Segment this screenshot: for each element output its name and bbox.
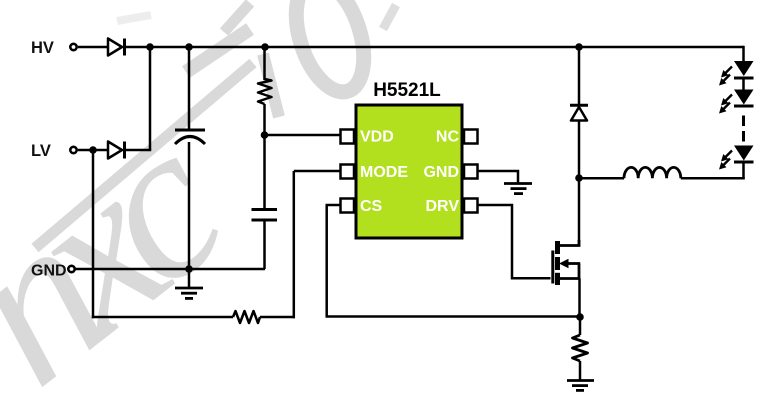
- pin CS box: [341, 199, 355, 213]
- wire LV node down: [92, 150, 95, 318]
- wire source node to R4: [579, 317, 582, 335]
- wire CS bottom run: [326, 315, 581, 318]
- wire MODE riser: [293, 171, 296, 318]
- pin MODE box: [341, 165, 355, 179]
- wire bottom left to R2: [92, 316, 233, 319]
- wire source down: [578, 279, 581, 318]
- svg-text:NC: NC: [436, 129, 460, 146]
- wire LV terminal to D2: [78, 149, 108, 152]
- svg-text:GND: GND: [31, 263, 67, 280]
- pin DRV box: [464, 199, 478, 213]
- node VDD: [261, 131, 269, 139]
- resistor R1 (vertical): [258, 79, 272, 104]
- watermark p stem: [263, 54, 279, 117]
- wire D2 to riser: [126, 149, 151, 152]
- wire SW to L1: [579, 177, 624, 180]
- svg-text:H5521L: H5521L: [373, 80, 441, 101]
- wire drain riser: [578, 178, 581, 246]
- watermark wisp right of o: [383, 5, 396, 29]
- pin GND box: [464, 165, 478, 179]
- svg-text:HV: HV: [31, 39, 54, 57]
- LED LED2: [719, 90, 754, 114]
- node LV / bottom feedback: [89, 146, 97, 154]
- node top rail / R1: [261, 43, 269, 51]
- IC U1 H5521L: [356, 105, 462, 238]
- watermark text nxc-po: [0, 0, 396, 409]
- wire top rail to C1: [188, 47, 191, 130]
- node SW: [575, 174, 583, 182]
- diode D3 (freewheel): [570, 105, 588, 120]
- wire R2 to MODE riser: [260, 316, 295, 319]
- pin VDD box: [341, 130, 355, 144]
- svg-text:CS: CS: [360, 198, 383, 215]
- wire LED rail top: [742, 46, 745, 62]
- LED LED3: [719, 146, 754, 170]
- terminal HV: [70, 44, 76, 50]
- ground G2: [504, 184, 532, 194]
- wire GND pin to ground: [478, 171, 519, 184]
- ground G3: [567, 381, 594, 391]
- wire riser LV to top rail: [149, 46, 152, 150]
- diode D2 (LV input): [108, 142, 125, 159]
- wire VDD node to pin: [265, 134, 341, 137]
- channel tick drain: [555, 241, 560, 254]
- wire R1 to top rail: [263, 47, 266, 80]
- LED LED1: [719, 61, 754, 86]
- diode D1 (HV input): [108, 39, 125, 56]
- svg-text:MODE: MODE: [360, 164, 408, 181]
- watermark o loop: [284, 0, 377, 100]
- wire C1 to GND rail: [188, 142, 191, 269]
- terminal GND: [68, 266, 74, 272]
- source stub: [558, 277, 580, 280]
- wire VDD node to R1: [263, 104, 266, 135]
- wire CS riser: [325, 205, 328, 317]
- node source / CS: [576, 313, 584, 321]
- svg-text:VDD: VDD: [360, 129, 394, 146]
- node top rail / C1: [185, 43, 193, 51]
- terminal LV: [70, 147, 76, 153]
- body to source: [578, 264, 581, 279]
- node top rail / LV diode: [146, 43, 154, 51]
- wire DRV pin to gate: [478, 205, 551, 278]
- inductor L1: [624, 167, 681, 178]
- node GND / C1: [185, 265, 193, 273]
- wire C2 to VDD node: [263, 135, 266, 209]
- wire LED rail bottom: [742, 163, 745, 179]
- wire top rail: [126, 46, 744, 49]
- gate bar: [551, 251, 554, 284]
- drain stub: [558, 240, 579, 246]
- transistor Q1 (NMOS): [553, 240, 580, 285]
- wire dashed LED2-LED3: [742, 116, 745, 142]
- wire to MODE pin: [294, 170, 340, 173]
- channel tick body: [555, 257, 560, 270]
- svg-text:LV: LV: [31, 142, 51, 160]
- wire GND rail: [75, 268, 265, 271]
- wire L1 to LED string: [681, 177, 745, 180]
- wire C2 to GND rail: [263, 221, 266, 269]
- ground G1: [175, 269, 203, 298]
- capacitor C2: [252, 210, 278, 221]
- wire R4 to ground: [579, 361, 582, 380]
- wire D3 top: [578, 47, 581, 105]
- resistor R2 (horizontal): [233, 311, 260, 323]
- node top rail / D3: [575, 43, 583, 51]
- watermark p-bowl tail: [224, 3, 250, 32]
- wire CS pin to riser: [326, 204, 341, 207]
- svg-text:DRV: DRV: [426, 198, 460, 215]
- watermark dash stroke: [35, 63, 253, 248]
- channel tick source: [555, 273, 560, 285]
- body arrow: [559, 259, 569, 269]
- svg-text:GND: GND: [423, 164, 459, 181]
- wire HV terminal to D1: [78, 46, 108, 49]
- pin NC box: [464, 130, 478, 144]
- capacitor C1 (polarized): [175, 130, 205, 144]
- resistor R4 (vertical): [573, 335, 588, 361]
- wire D3 bottom: [578, 121, 581, 180]
- wire LED1-LED2: [742, 79, 745, 91]
- watermark top-left speck: [117, 15, 151, 21]
- watermark hyphen stroke: [186, 29, 250, 72]
